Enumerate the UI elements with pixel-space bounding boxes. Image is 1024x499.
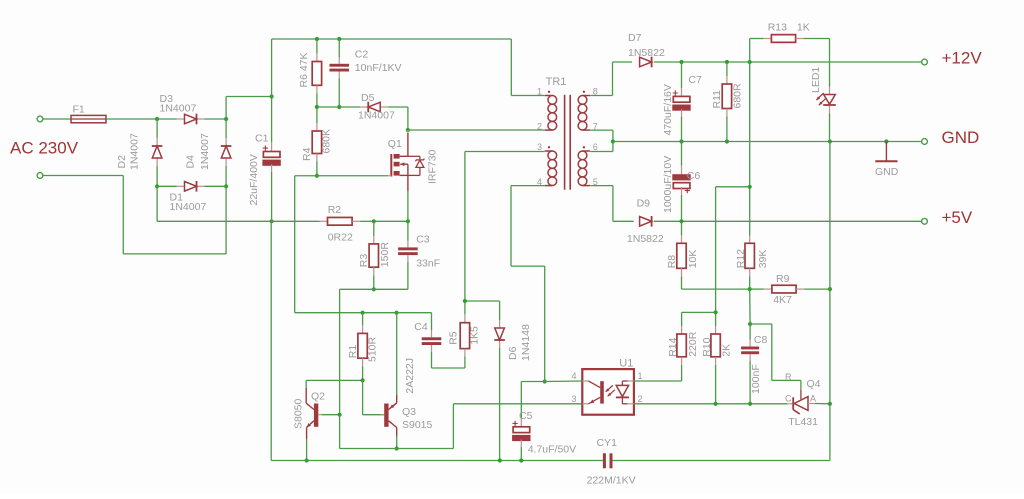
junction U1 pin4 node [543,379,547,383]
svg-text:R9: R9 [776,273,790,285]
wire TR1 pin8 to D7 [590,62,632,96]
pin label TL431 C [785,394,792,404]
wire R12 feed line [749,62,751,236]
svg-text:2K: 2K [720,344,732,357]
wire R13 to LED1 [829,39,831,87]
pin label TL431 R [785,372,792,382]
svg-text:GND: GND [942,128,980,147]
diode D3 1N4007 [157,93,226,124]
wire primary bottom rail [271,460,830,462]
junction bridge node A [155,117,159,121]
svg-text:222M/1KV: 222M/1KV [587,475,636,487]
svg-text:TR1: TR1 [546,76,567,88]
svg-text:D2: D2 [116,155,128,169]
wire snubber row [317,106,339,108]
junction R11 top node [725,60,729,64]
pin number TR1-1 [537,87,542,97]
svg-text:4K7: 4K7 [773,294,792,306]
svg-text:D7: D7 [628,32,642,44]
resistor R5 1K5 [447,301,480,368]
svg-text:4.7uF/50V: 4.7uF/50V [528,444,576,456]
wire R3/C3 bottom row to Q2 base line [340,289,408,414]
wire feedback link row [340,404,583,449]
GND output terminal [922,139,928,145]
svg-text:U1: U1 [619,358,633,370]
capacitor C1 22uF/400V [248,97,281,222]
svg-text:F1: F1 [73,103,85,115]
svg-text:1: 1 [638,371,643,381]
diode D6 1N4148 [494,301,532,461]
resistor R4 680K [301,107,333,176]
+12V output terminal [922,59,928,65]
svg-text:S8050: S8050 [292,398,304,429]
capacitor C5 4.7uF/50V [512,382,576,461]
junction C8 bottom node [748,402,752,406]
net label +12V [942,49,983,68]
svg-text:GND: GND [875,166,899,178]
junction C2 top node [337,37,341,41]
capacitor CY1 222M/1KV [587,437,636,487]
capacitor C7 470uF/16V [662,62,702,142]
svg-text:6: 6 [593,142,598,152]
resistor R12 39K [735,236,769,290]
svg-text:C2: C2 [355,49,369,61]
junction divider node [748,287,752,291]
svg-text:150R: 150R [379,242,391,268]
junction R11 bottom node [725,139,729,143]
wire TR1 pin3 lead [465,151,545,153]
wire U1 pin4 wire [545,380,583,383]
svg-text:R2: R2 [328,204,342,216]
fuse F1 [43,103,106,123]
svg-text:3: 3 [537,142,542,152]
junction C1 top node [270,94,274,98]
svg-text:1K: 1K [797,22,810,34]
junction R14/R10 top node [714,310,718,314]
svg-text:LED1: LED1 [810,67,822,93]
transistor Q3 S9015 [381,395,433,436]
svg-text:R: R [785,372,792,382]
svg-text:C4: C4 [414,321,428,333]
resistor R2 0R22 [272,204,374,244]
svg-text:C1: C1 [255,133,269,145]
wire R13 left riser [749,39,751,63]
junction C7 top node [679,60,683,64]
svg-text:2: 2 [537,121,542,131]
wire TR1 pin5 to D9 [590,186,634,222]
junction bridge node D (neutral) [224,184,228,188]
svg-text:R6 47K: R6 47K [298,52,310,87]
svg-text:C5: C5 [519,410,533,422]
junction Q3 emitter node [394,311,398,315]
svg-text:S9015: S9015 [402,419,433,431]
svg-text:22uF/400V: 22uF/400V [248,154,260,205]
svg-text:1N4007: 1N4007 [170,201,207,213]
wire node down to Q3 base [363,380,385,414]
pin number U1-1 [638,371,643,381]
wire branch to R14/R10 [716,187,750,313]
svg-text:IRF730: IRF730 [427,149,439,184]
svg-text:AC 230V: AC 230V [10,139,79,158]
junction C6 bottom node [679,219,683,223]
svg-text:1N5822: 1N5822 [627,233,664,245]
svg-text:R5: R5 [447,331,459,345]
svg-text:R12: R12 [735,249,747,268]
junction C5 bottom rail node [519,458,523,462]
svg-text:4: 4 [571,371,576,381]
svg-text:R11: R11 [711,90,723,109]
junction C7-C6 node [679,139,683,143]
svg-text:Q2: Q2 [311,391,325,403]
resistor R11 680R [711,62,744,142]
resistor R3 150R [358,221,391,289]
svg-text:1K5: 1K5 [469,326,481,345]
svg-text:1000uF/10V: 1000uF/10V [662,156,674,213]
resistor R13 1K [750,22,830,43]
junction GND symbol node [884,139,888,143]
svg-text:C6: C6 [687,170,701,182]
diode D1 1N4007 [157,181,226,213]
junction gate row at R4 bottom [315,174,319,178]
svg-text:R4: R4 [301,147,313,161]
pin number TR1-2 [537,121,542,131]
pin number TR1-5 [593,177,598,187]
svg-text:C7: C7 [688,74,702,86]
AC terminal live [37,116,43,122]
diode D2 1N4007 [116,119,163,186]
svg-text:10nF/1KV: 10nF/1KV [355,62,402,74]
wire TR1 pin6 to GND rail [590,142,613,152]
wire U1 pin1 wire to R14 [634,380,682,382]
junction bridge node B (V+) [224,117,228,121]
junction TL431 anode node [828,402,832,406]
resistor R10 2K [701,312,733,403]
junction R10 bottom node [714,402,718,406]
svg-text:R13: R13 [768,22,787,34]
resistor R8 10K [666,221,699,289]
svg-text:33nF: 33nF [416,258,440,270]
wire top HV rail [272,39,512,96]
wire TR1 pin4 lead [511,186,545,382]
junction center tap node [611,139,615,143]
svg-text:C8: C8 [754,334,768,346]
capacitor C6 1000uF/10V [662,142,701,222]
capacitor C8 100nF [741,324,767,404]
svg-text:C3: C3 [416,234,430,246]
wire TR1 pin2 lead [543,129,545,131]
junction R1 bottom / Q2 collector / Q3 base node [361,378,365,382]
wire TR1 pin1 lead [511,95,544,97]
svg-text:A: A [810,394,816,404]
svg-text:220R: 220R [687,331,699,357]
pin label TL431 A [810,394,816,404]
junction source node at C3 top [406,219,410,223]
svg-text:680K: 680K [320,129,332,154]
wire GND rail [613,141,925,143]
junction primary return at C1 bottom [270,219,274,223]
svg-text:680R: 680R [732,83,744,109]
svg-text:R10: R10 [701,337,713,356]
resistor R9 4K7 [750,273,830,306]
svg-text:3: 3 [571,394,576,404]
svg-text:Q4: Q4 [807,378,821,390]
svg-text:2: 2 [638,394,643,404]
svg-text:39K: 39K [757,250,769,269]
optocoupler U1 [582,358,634,415]
transistor Q1 IRF730 [388,130,439,191]
junction R3 bottom node [372,287,376,291]
voltage reference Q4 TL431 [787,378,830,428]
junction D6 bottom rail node [498,458,502,462]
+5V output terminal [922,218,928,224]
svg-text:Q1: Q1 [388,138,402,150]
junction bridge node C (V-) [155,184,159,188]
svg-text:D4: D4 [184,155,196,169]
wire TR1 pin7 to GND rail [590,130,613,141]
wire U1 pin2 / TL431 cathode row [634,403,787,405]
svg-text:0R22: 0R22 [328,232,353,244]
capacitor C4 2A222J [404,321,442,394]
wire Q2 emitter to bottom rail [306,439,308,461]
pin number TR1-6 [593,142,598,152]
junction R6 top node [315,37,319,41]
pin number TR1-3 [537,142,542,152]
wire Q2 collector to R1 bottom [306,380,362,388]
wire Q2 base wire [322,414,340,416]
junction Q3 collector node [395,446,399,450]
svg-text:1N4007: 1N4007 [199,133,211,170]
svg-text:+12V: +12V [942,49,983,68]
svg-text:R14: R14 [667,337,679,356]
svg-text:C: C [785,394,792,404]
diode D4 1N4007 [184,119,231,186]
svg-text:1N5822: 1N5822 [628,47,665,59]
wire divider row [682,288,750,290]
junction R12 line branch node [748,185,752,189]
diode D7 1N5822 [628,32,665,67]
svg-text:D9: D9 [637,198,651,210]
wire +5V rail [654,220,925,222]
wire C1 bottom to bottom rail [270,221,272,460]
svg-text:Q3: Q3 [402,406,416,418]
wire TR1 pin3 to R5/D6 [465,152,500,302]
wire bias row [363,313,432,331]
svg-text:1N4007: 1N4007 [358,110,395,122]
junction snubber node at R6 bottom [315,105,319,109]
pin number U1-4 [571,371,576,381]
pin number TR1-7 [593,121,598,131]
net label +5V [942,208,973,227]
junction R9 right node [828,287,832,291]
junction Q2 emitter rail node [305,458,309,462]
wire bridge V- to primary return row [157,186,272,221]
junction pin3/R5 node [463,299,467,303]
wire gate row [295,176,388,313]
wire R14 top link [682,312,716,326]
svg-text:1N4007: 1N4007 [128,133,140,170]
wire F1 to bridge node A [106,118,157,120]
resistor R6 47K [298,39,322,107]
wire drain node to TR1 pin2 [408,129,543,131]
wire bridge V+ up to C1 top node [226,97,272,120]
svg-text:R1: R1 [347,345,359,359]
wire Q3 collector down [396,436,398,449]
svg-text:R3: R3 [358,254,370,268]
resistor R1 510R [347,313,379,381]
wire AC neutral to bridge node D [43,176,226,254]
svg-text:+5V: +5V [942,208,973,227]
pin number TR1-8 [593,87,598,97]
net label AC 230V [10,139,79,158]
diode D9 1N5822 [627,198,664,246]
capacitor C2 10nF/1KV [329,39,401,107]
transformer TR1 [545,76,590,190]
diode D5 1N4007 [339,92,408,122]
svg-text:510R: 510R [367,336,379,362]
junction snubber node at C2 bottom [337,105,341,109]
wire D5 anode to drain node [407,107,409,130]
junction R2-R3 node [372,219,376,223]
wire C8 to TL431 R [750,324,801,390]
pin number TR1-4 [537,177,542,187]
wire Q3 emitter to bias row [396,313,398,395]
wire V+ rail riser [271,39,273,97]
junction drain node [406,128,410,132]
AC terminal neutral [37,173,43,179]
junction R1 top node [361,311,365,315]
pin number U1-3 [571,394,576,404]
pin number U1-2 [638,394,643,404]
svg-text:10K: 10K [687,250,699,269]
svg-text:470uF/16V: 470uF/16V [662,84,674,135]
svg-text:2A222J: 2A222J [404,358,416,394]
wire pin4 node to C5 [521,381,544,383]
junction R13 branch node [748,60,752,64]
resistor R14 220R [667,326,699,381]
junction LED cathode node [828,139,832,143]
wire divider node down to C8 branch [749,289,751,324]
svg-text:1N4148: 1N4148 [520,324,532,361]
junction Q2 base node [338,413,342,417]
LED LED1 [810,67,836,142]
svg-text:R8: R8 [666,255,678,269]
wire TL431 anode/GND column [829,142,831,461]
svg-text:D5: D5 [361,92,375,104]
junction C8 branch node [748,322,752,326]
wire R2 row to source node [374,220,408,222]
svg-text:TL431: TL431 [788,416,818,428]
capacitor C3 33nF [398,221,440,289]
svg-text:100nF: 100nF [750,364,762,394]
net label GND [942,128,980,147]
svg-text:1N4007: 1N4007 [160,103,197,115]
wire C4/R5 bottom link [432,367,465,369]
svg-text:CY1: CY1 [597,437,618,449]
wire +12V rail [654,61,925,63]
wire source to current sense row [407,191,409,221]
svg-text:D6: D6 [507,346,519,360]
ground symbol [875,142,899,179]
transistor Q2 S8050 [292,388,325,439]
